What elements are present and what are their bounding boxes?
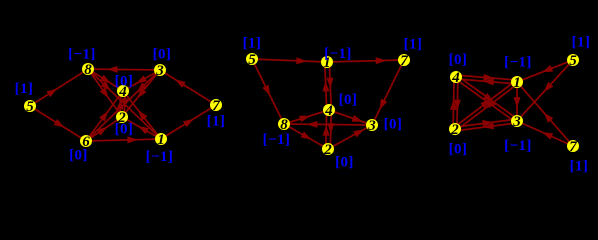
svg-text:7: 7 [212, 98, 220, 114]
svg-text:[0]: [0] [335, 155, 354, 171]
svg-text:2: 2 [450, 122, 459, 138]
svg-text:[0]: [0] [153, 47, 172, 63]
svg-text:[0]: [0] [449, 142, 468, 158]
svg-text:[1]: [1] [15, 81, 34, 97]
svg-text:[0]: [0] [449, 52, 468, 68]
svg-text:7: 7 [400, 53, 408, 69]
svg-text:[−1]: [−1] [504, 138, 532, 154]
svg-text:[1]: [1] [207, 114, 226, 130]
svg-text:[1]: [1] [243, 36, 262, 52]
svg-text:3: 3 [512, 114, 521, 130]
svg-text:[0]: [0] [69, 148, 88, 164]
svg-text:8: 8 [280, 117, 288, 133]
svg-text:[−1]: [−1] [263, 132, 291, 148]
svg-text:[1]: [1] [570, 159, 589, 175]
svg-text:[−1]: [−1] [504, 55, 532, 71]
svg-text:[1]: [1] [572, 35, 591, 51]
svg-text:[−1]: [−1] [146, 149, 174, 165]
svg-text:3: 3 [155, 63, 164, 79]
svg-text:3: 3 [367, 118, 376, 134]
svg-text:2: 2 [323, 142, 332, 158]
svg-text:4: 4 [324, 103, 333, 119]
svg-text:5: 5 [569, 53, 577, 69]
svg-text:[0]: [0] [115, 122, 134, 138]
svg-text:8: 8 [84, 62, 92, 78]
svg-text:[0]: [0] [115, 74, 134, 90]
svg-text:1: 1 [513, 75, 521, 91]
svg-text:7: 7 [569, 139, 577, 155]
svg-text:[1]: [1] [404, 37, 423, 53]
svg-text:[−1]: [−1] [68, 47, 96, 63]
svg-text:4: 4 [451, 70, 460, 86]
svg-text:[0]: [0] [339, 92, 358, 108]
svg-text:1: 1 [157, 132, 165, 148]
svg-text:[−1]: [−1] [324, 46, 352, 62]
svg-text:5: 5 [248, 52, 256, 68]
svg-text:[0]: [0] [384, 117, 403, 133]
svg-text:5: 5 [26, 99, 34, 115]
